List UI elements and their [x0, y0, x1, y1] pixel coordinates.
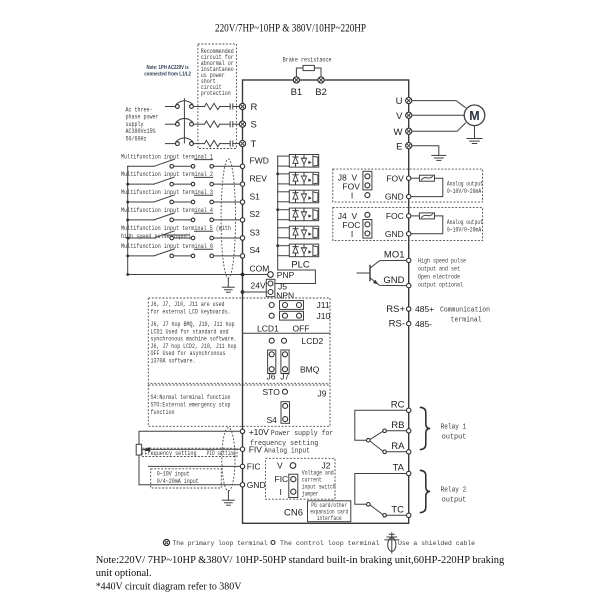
fuse T [230, 141, 233, 146]
svg-text:J9: J9 [318, 389, 327, 399]
svg-text:output: output [442, 433, 467, 441]
wire B2 riser [314, 68, 321, 77]
jumper J6 [268, 350, 276, 373]
svg-text:50/60Hz: 50/60Hz [126, 135, 147, 142]
wire FOC to meter [411, 215, 419, 217]
label J8 mid [342, 182, 360, 192]
svg-text:Analog output: Analog output [447, 181, 483, 188]
svg-text:B2: B2 [315, 87, 327, 98]
svg-text:RS+: RS+ [386, 304, 405, 315]
svg-text:PNP: PNP [277, 270, 295, 280]
svg-text:PID setting: PID setting [207, 450, 236, 457]
label LCD1 OFF [257, 324, 310, 334]
wire FOV loop [411, 178, 443, 196]
wire switch 5 to terminal [214, 237, 241, 239]
pot wiper arrow [142, 447, 150, 451]
svg-text:GND: GND [383, 275, 404, 286]
svg-text:FIC: FIC [247, 462, 261, 472]
svg-text:MO1: MO1 [384, 250, 405, 261]
switch blade 3 [154, 195, 174, 202]
svg-text:COM: COM [250, 264, 270, 274]
svg-text:output optional: output optional [418, 281, 463, 288]
text protection circuit [201, 48, 234, 97]
svg-text:*440V circuit diagram refer to: *440V circuit diagram refer to 380V [96, 581, 242, 592]
dashed box STO [148, 385, 330, 426]
wire wiper to FIV [150, 448, 240, 450]
switch blade 2 [154, 177, 174, 184]
svg-text:I: I [280, 487, 282, 497]
svg-text:The primary loop terminal: The primary loop terminal [173, 540, 268, 547]
digital input left bus [127, 166, 129, 274]
potentiometer RP1 [136, 444, 141, 455]
jumper J7 [281, 350, 289, 373]
title text [215, 23, 366, 35]
legend shield symbol [385, 533, 399, 553]
wire switch feed 4 [128, 219, 154, 221]
label J2 V [277, 461, 283, 471]
terminal B1 [291, 77, 303, 98]
junction bus row 6 [126, 255, 129, 258]
label brake resistance [283, 57, 332, 64]
terminal GND FOC [385, 229, 411, 239]
resistor protection S [205, 121, 220, 127]
contactor link bar [183, 99, 185, 143]
junction bus row 3 [126, 201, 129, 204]
svg-text:jumper: jumper [302, 490, 319, 497]
pin J11 left [269, 303, 274, 308]
svg-text:GND: GND [385, 229, 404, 239]
svg-text:J6, J7 hop BMQ, J10, J11 hop: J6, J7 hop BMQ, J10, J11 hop [151, 321, 235, 328]
terminal U [396, 96, 412, 107]
svg-text:output: output [442, 496, 467, 504]
svg-text:0~10V input: 0~10V input [157, 470, 190, 477]
node PNP [268, 270, 295, 280]
pin STO [283, 389, 288, 394]
contact bar 2 [195, 176, 213, 178]
terminal R [239, 102, 257, 113]
ground motor [467, 139, 482, 144]
svg-text:LCD2: LCD2 [302, 336, 324, 346]
contact bar 1 [195, 159, 213, 161]
switch contacts 5 [170, 236, 214, 240]
legend shield text [398, 540, 475, 547]
svg-text:RB: RB [391, 420, 404, 431]
wire fuse S to terminal [233, 123, 240, 125]
label multifunction input 6 [121, 243, 213, 250]
contact bar 3 [195, 194, 213, 196]
legend control terminal text [280, 540, 380, 547]
svg-text:E: E [396, 141, 402, 152]
svg-text:STO: STO [263, 387, 281, 397]
svg-text:Relay 2: Relay 2 [441, 487, 467, 495]
terminal +10V [240, 427, 269, 437]
svg-text:FIC: FIC [275, 474, 289, 484]
pin J2 V [290, 463, 296, 469]
jumper S4 [281, 402, 290, 424]
switch blade 6 [154, 249, 174, 256]
dashed box input range [151, 469, 222, 488]
ground shield analog [222, 500, 234, 505]
svg-text:J6, J7 hop LCD2, J10, J11 hop: J6, J7 hop LCD2, J10, J11 hop [151, 343, 237, 350]
svg-text:S4: S4 [250, 245, 261, 255]
terminal MO1 [384, 250, 411, 263]
svg-text:U: U [396, 96, 403, 107]
label power supply [250, 430, 333, 448]
terminal S2 [240, 209, 260, 222]
optocoupler FWD [289, 155, 318, 168]
terminal RS+ [386, 304, 434, 315]
label J4 I [351, 229, 353, 239]
junction bus row 4 [126, 219, 129, 222]
label J8 I [351, 191, 353, 201]
terminal FWD [240, 156, 269, 169]
switch blade 4 [154, 213, 174, 220]
svg-text:RC: RC [391, 400, 405, 411]
transistor Q1 [357, 260, 407, 285]
terminal FOV [386, 173, 411, 183]
svg-text:M: M [469, 109, 479, 123]
svg-text:V: V [396, 111, 403, 122]
optocoupler S4 [289, 244, 318, 257]
relay1 blade RA [370, 441, 383, 451]
terminal S [239, 120, 256, 131]
wire FIC feed [149, 465, 241, 467]
svg-text:S4:Normal terminal function: S4:Normal terminal function [151, 394, 231, 401]
wire U to motor [412, 101, 466, 108]
terminal RB [391, 420, 411, 433]
wire W to motor [412, 123, 466, 131]
note line 2 [96, 568, 152, 579]
terminal S3 [240, 227, 260, 240]
wire opto REV pins [278, 174, 290, 184]
wire opto S2 pins [278, 210, 290, 220]
label relay2 output [441, 487, 467, 505]
terminal FIV [240, 444, 262, 454]
wire resistor R to fuse [220, 106, 230, 108]
terminal S4 [240, 245, 260, 258]
divider line LCD box [243, 332, 331, 334]
switch contacts 1 [170, 165, 214, 169]
opto common line [277, 156, 279, 270]
svg-text:V: V [277, 461, 283, 471]
wire +10V to pot [139, 431, 240, 444]
label frequency setting [145, 450, 236, 457]
svg-text:AC380V±15%: AC380V±15% [126, 128, 156, 135]
wire switch feed 3 [128, 201, 154, 203]
legend primary terminal text [173, 540, 268, 547]
label S4 jumper [267, 415, 278, 425]
wire fuse T to terminal [233, 143, 240, 145]
svg-text:S3: S3 [250, 227, 261, 237]
label communication terminal [440, 307, 490, 325]
svg-text:FOC: FOC [386, 211, 404, 221]
dashed box J4 analog output [333, 208, 483, 241]
svg-text:0~10V/0~20mA: 0~10V/0~20mA [447, 188, 482, 195]
wire relay2 common [355, 474, 407, 505]
junction bus COM corner [126, 273, 129, 276]
switch contacts 3 [170, 200, 214, 204]
svg-text:1370A software.: 1370A software. [151, 358, 196, 365]
junction opto line REV [276, 173, 279, 176]
switch contactor pole R [176, 101, 194, 109]
labels J6 J7 [267, 372, 290, 382]
wire E ground lead [412, 146, 439, 156]
svg-text:T: T [251, 139, 257, 150]
text STO note [151, 394, 231, 416]
terminal RC [391, 400, 411, 413]
meter FOV [419, 175, 434, 181]
jumper J8 cap [363, 171, 372, 190]
svg-text:Note: 1PH AC220V is: Note: 1PH AC220V is [147, 65, 189, 71]
legend control terminal symbol [271, 541, 275, 545]
svg-text:Power supply for: Power supply for [271, 430, 334, 438]
terminal RA [391, 441, 411, 454]
svg-text:I: I [351, 229, 353, 239]
svg-text:RS-: RS- [389, 319, 405, 330]
terminal GND MO1 [383, 275, 411, 288]
jumper J2 cap [289, 474, 298, 497]
wire 24V to J5 [243, 291, 267, 293]
terminal 24V [241, 281, 266, 294]
label BMQ [300, 365, 320, 375]
svg-text:24V: 24V [251, 281, 266, 291]
wire resistor T to fuse [220, 143, 230, 145]
svg-text:BMQ: BMQ [300, 365, 320, 375]
pin J4 V [365, 212, 370, 217]
wire switch 4 to terminal [214, 219, 241, 221]
svg-text:protection: protection [201, 90, 231, 97]
optocoupler S1 [289, 190, 318, 203]
wire switch feed 1 [128, 165, 154, 167]
wire V to motor [412, 114, 464, 116]
svg-text:S4: S4 [267, 415, 278, 425]
box PG card [308, 501, 351, 522]
label analog output FOC [447, 219, 483, 233]
relay1 pivot [367, 438, 371, 442]
wire switch 6 to terminal [214, 255, 241, 257]
label J2 FIC [275, 474, 289, 484]
pin J8 I [365, 193, 370, 198]
svg-text:RA: RA [391, 441, 405, 452]
label input range [157, 470, 199, 485]
wire pot to GND [139, 455, 240, 485]
junction bus row 2 [126, 183, 129, 186]
brace relay2 [420, 470, 430, 512]
relay1 contact RA [383, 450, 407, 454]
wire opto S1 pins [278, 192, 290, 202]
dashed box frequency setting [143, 448, 238, 456]
optocoupler REV [289, 172, 318, 185]
label J4 [338, 211, 347, 221]
terminal FIC [240, 462, 260, 472]
meter FOC [419, 213, 434, 219]
jumper J10 [280, 311, 331, 321]
label relay1 output [441, 424, 467, 442]
svg-text:FIV: FIV [249, 444, 263, 454]
svg-text:output and set: output and set [418, 265, 460, 272]
relay1 contact RB [383, 429, 407, 433]
svg-text:0/4~20mA input: 0/4~20mA input [157, 478, 199, 485]
wire pole S to protection [193, 123, 204, 125]
svg-text:W: W [394, 127, 403, 138]
svg-text:TC: TC [391, 504, 404, 515]
wire shield analog ground lead [227, 491, 229, 500]
shield ellipse input cable [221, 159, 235, 278]
terminal REV [240, 173, 267, 186]
note line 3 [96, 581, 242, 592]
terminal FOC [386, 211, 411, 221]
svg-text:J6: J6 [267, 372, 276, 382]
switch contactor pole T [176, 138, 194, 146]
svg-text:STO:External emergency stop: STO:External emergency stop [151, 401, 231, 408]
svg-text:S1: S1 [250, 191, 261, 201]
wire supply lead T [166, 143, 176, 145]
optocoupler S3 [289, 226, 318, 239]
wire switch 2 to terminal [214, 183, 241, 185]
dashed box J2 [266, 458, 336, 499]
ground shield input [222, 287, 234, 292]
pin J10 left [269, 313, 274, 318]
svg-text:S2: S2 [250, 209, 261, 219]
svg-text:Open electrode: Open electrode [418, 273, 460, 280]
wire COM row [128, 274, 268, 276]
switch contacts 6 [170, 254, 214, 258]
svg-text:supply: supply [126, 121, 144, 128]
svg-text:synchronous machine software.: synchronous machine software. [151, 336, 237, 343]
wire opto S4 pins [278, 246, 290, 256]
junction opto line S4 [276, 244, 279, 247]
wire switch feed 6 [128, 255, 154, 257]
svg-text:S: S [251, 120, 257, 131]
pins LCD2 [269, 336, 323, 346]
svg-text:B1: B1 [291, 87, 303, 98]
contact bar 5 [195, 230, 213, 232]
svg-text:LCD1: LCD1 [257, 324, 279, 334]
text voltage current jumper [302, 470, 336, 498]
svg-text:485-: 485- [415, 319, 432, 329]
label NPN [276, 290, 294, 300]
label STO [263, 387, 281, 397]
wire resistor S to fuse [220, 123, 230, 125]
svg-text:0~10V/0~20mA: 0~10V/0~20mA [447, 227, 482, 234]
dashed box LCD jumpers [148, 298, 330, 383]
label analog input [264, 447, 310, 455]
label J8 [338, 172, 347, 182]
label three-phase supply [126, 107, 159, 143]
ground E [432, 155, 446, 160]
resistor protection R [205, 103, 220, 109]
label J4 V [352, 211, 358, 221]
wire shield ground lead [227, 278, 229, 287]
wire switch feed 2 [128, 183, 154, 185]
relay2 blade [370, 505, 383, 515]
terminal TA [393, 463, 411, 476]
label J2 [322, 461, 331, 471]
terminal GND analog [240, 480, 265, 490]
terminal TC [391, 504, 411, 517]
svg-text:REV: REV [250, 173, 268, 183]
svg-text:FWD: FWD [250, 156, 269, 166]
terminal GND FOV [385, 192, 411, 202]
brace relay1 [420, 407, 430, 449]
junction bus row 5 [126, 237, 129, 240]
wire motor ground lead [474, 126, 476, 139]
jumper J5 [266, 279, 287, 296]
svg-text:unit optional.: unit optional. [96, 568, 152, 579]
wire supply lead R [166, 106, 176, 108]
svg-text:Use a shielded cable: Use a shielded cable [398, 540, 475, 547]
motor M1 [464, 105, 485, 126]
svg-text:OFF: OFF [293, 324, 310, 334]
svg-text:Brake resistance: Brake resistance [283, 57, 332, 64]
terminal W [394, 127, 412, 138]
svg-text:NPN: NPN [276, 290, 294, 300]
terminal S1 [240, 191, 260, 204]
wire opto FWD pins [278, 156, 290, 166]
svg-text:+10V: +10V [249, 427, 269, 437]
svg-text:high speed pulse input): high speed pulse input) [121, 233, 191, 240]
wire FOV to meter [411, 177, 419, 179]
junction opto line S2 [276, 208, 279, 211]
terminal E [396, 141, 412, 152]
label analog output FOV [447, 181, 483, 195]
switch contactor pole S [176, 118, 194, 126]
label J4 mid [342, 220, 360, 230]
resistor brake [303, 65, 314, 70]
label PLC [291, 260, 310, 271]
underline label 5 [162, 234, 189, 236]
svg-text:GND: GND [385, 192, 404, 202]
label multifunction input 1 [121, 153, 213, 160]
svg-text:TA: TA [393, 463, 405, 474]
label multifunction input 3 [121, 189, 213, 196]
wire fuse R to terminal [233, 106, 240, 108]
svg-text:Analog output: Analog output [447, 219, 483, 226]
dashed box protection circuit [198, 44, 237, 149]
svg-text:GND: GND [247, 480, 266, 490]
svg-text:terminal: terminal [451, 316, 482, 324]
wire opto S3 pins [278, 228, 290, 238]
shield ellipse analog cable [222, 428, 235, 491]
wire switch 3 to terminal [214, 201, 241, 203]
svg-text:High speed pulse: High speed pulse [418, 257, 466, 264]
relay1 blade RB [370, 431, 383, 439]
wire switch 1 to terminal [214, 165, 241, 167]
label multifunction input 4 [121, 207, 213, 214]
text LCD note [151, 301, 237, 365]
terminal COM [241, 264, 270, 277]
svg-text:J11: J11 [317, 300, 330, 310]
dashed box J8 analog output [333, 169, 483, 202]
relay2 pivot [367, 503, 371, 507]
svg-text:FOV: FOV [386, 173, 404, 183]
jumper J4 cap [363, 220, 372, 239]
svg-text:Frequency setting: Frequency setting [145, 450, 197, 457]
VFD main box outline [243, 80, 409, 523]
optocoupler S2 [289, 208, 318, 221]
svg-text:Multifunction input terminal 5: Multifunction input terminal 5 (With [121, 225, 231, 232]
svg-text:Ac three-: Ac three- [126, 107, 153, 114]
switch blade 5 [154, 231, 174, 238]
fuse S [230, 122, 233, 127]
label multifunction input 5 [121, 225, 231, 240]
label J9 [318, 389, 327, 399]
terminal B2 [315, 77, 327, 98]
svg-text:220V/7HP~10HP & 380V/10HP~220H: 220V/7HP~10HP & 380V/10HP~220HP [215, 23, 366, 35]
terminal V [396, 111, 412, 122]
wire B1 riser [296, 68, 303, 77]
switch contacts 2 [170, 182, 214, 186]
